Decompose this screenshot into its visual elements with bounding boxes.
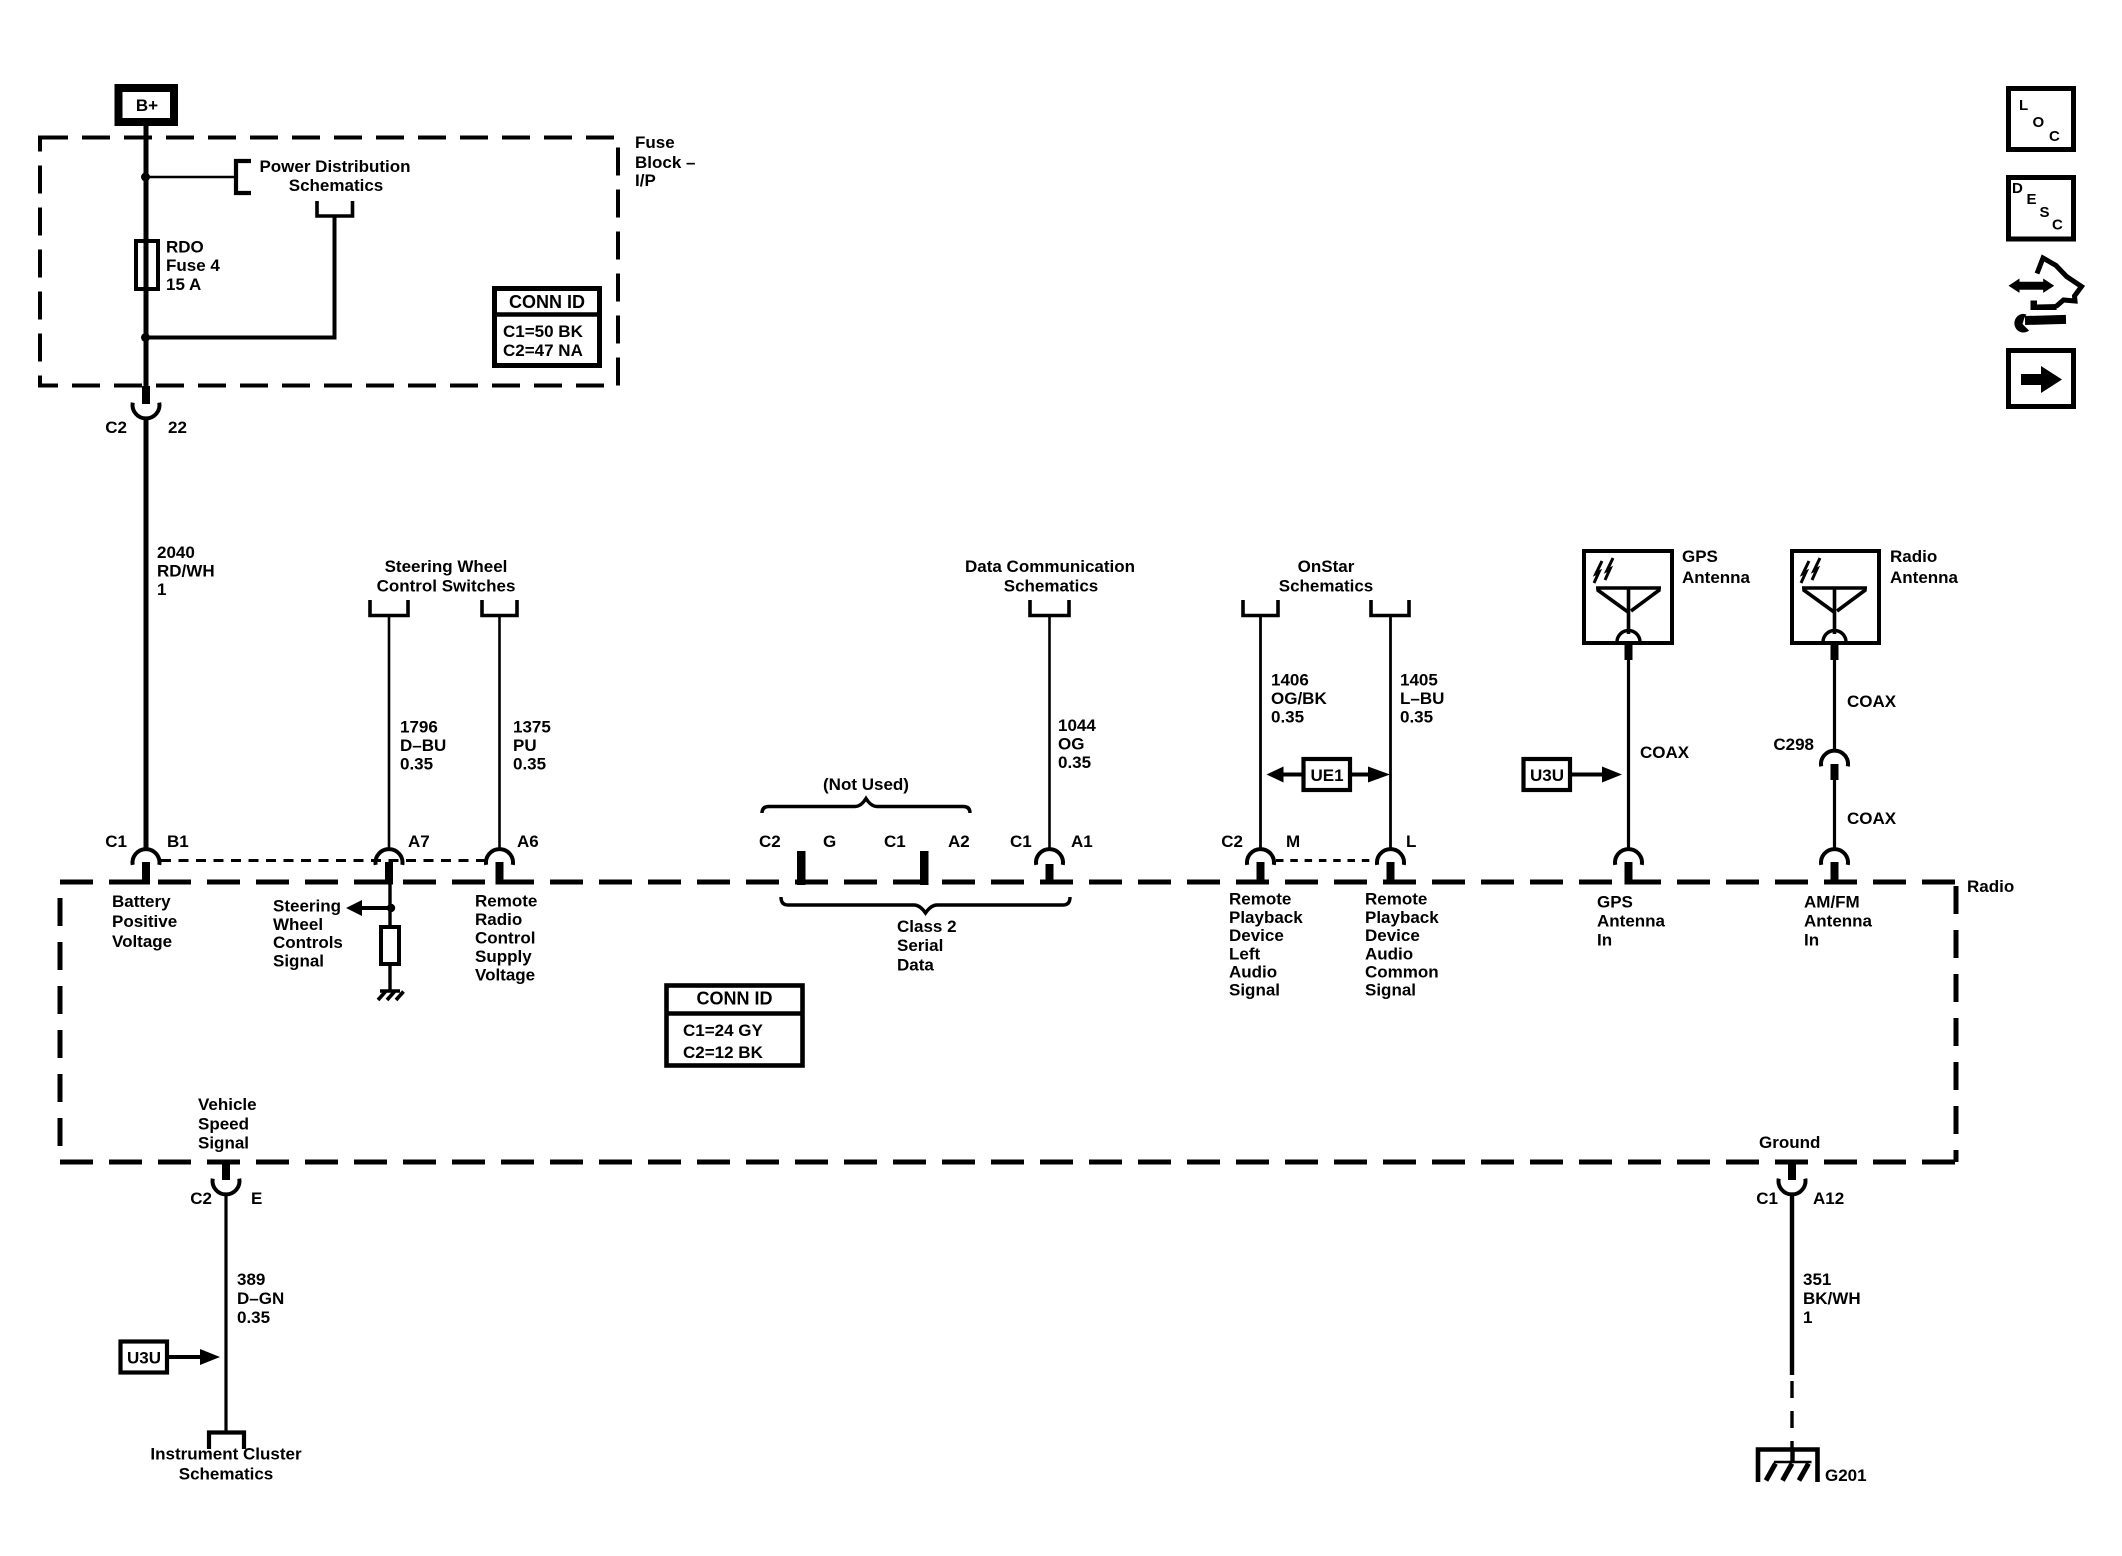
- wire B+ to fuse: [144, 126, 149, 386]
- svg-text:PU: PU: [513, 736, 537, 755]
- svg-text:1405: 1405: [1400, 671, 1438, 690]
- svg-text:GPS: GPS: [1597, 893, 1633, 912]
- svg-text:Block –: Block –: [635, 153, 695, 172]
- svg-text:C1: C1: [105, 832, 127, 851]
- svg-text:Class 2: Class 2: [897, 917, 957, 936]
- CONN ID table radio: [665, 986, 804, 1066]
- bracket to Power Distribution Schematics: [236, 157, 411, 195]
- svg-text:Schematics: Schematics: [1004, 577, 1099, 596]
- svg-text:Schematics: Schematics: [1279, 577, 1374, 596]
- svg-text:Audio: Audio: [1229, 963, 1277, 982]
- brace over not-used pins: [762, 799, 970, 814]
- wire A7 internal branch: [388, 883, 391, 927]
- svg-text:In: In: [1804, 931, 1819, 950]
- svg-text:C2: C2: [1221, 832, 1243, 851]
- svg-text:C1=24 GY: C1=24 GY: [683, 1021, 764, 1040]
- coax wire radio antenna upper: [1831, 643, 1897, 750]
- svg-text:1: 1: [1803, 1308, 1812, 1327]
- wire 1405 L-BU 0.35: [1391, 616, 1445, 850]
- svg-text:C2: C2: [759, 832, 781, 851]
- junction node at fuse feed: [141, 173, 150, 182]
- svg-text:Device: Device: [1229, 926, 1284, 945]
- radio dashed box: [60, 877, 2014, 1162]
- junction node below fuse: [141, 333, 150, 342]
- svg-text:A12: A12: [1813, 1189, 1844, 1208]
- svg-text:O: O: [2033, 114, 2045, 131]
- node Remote Playback Device Left Audio Signal: [1229, 890, 1303, 1000]
- svg-text:C2=47 NA: C2=47 NA: [503, 341, 583, 360]
- bracket from Power Distribution Schematics (return): [317, 201, 353, 216]
- icon LOC navigation box: [2009, 89, 2074, 150]
- radio antenna assembly: [1792, 547, 1959, 643]
- svg-text:E: E: [2027, 191, 2037, 208]
- svg-text:D–GN: D–GN: [237, 1289, 284, 1308]
- connector C1 pin A1 class 2 serial data: [1010, 832, 1093, 885]
- coax wire radio antenna lower: [1835, 780, 1897, 850]
- svg-text:Fuse 4: Fuse 4: [166, 256, 220, 275]
- svg-text:A1: A1: [1071, 832, 1093, 851]
- svg-text:RD/WH: RD/WH: [157, 562, 215, 581]
- node Steering Wheel Controls Signal: [273, 897, 343, 971]
- fuse RDO Fuse 4 15 A: [136, 238, 220, 295]
- svg-text:22: 22: [168, 418, 187, 437]
- svg-text:Voltage: Voltage: [112, 932, 172, 951]
- wire resistor to ground: [388, 964, 391, 991]
- svg-text:Remote: Remote: [1229, 890, 1291, 909]
- connector C2 pin M remote playback left audio: [1221, 832, 1300, 885]
- connector pin A7: [376, 832, 430, 885]
- connector C2 pin E vehicle speed output: [190, 1162, 262, 1208]
- dashed wire to G201: [1790, 1381, 1793, 1448]
- svg-text:UE1: UE1: [1310, 766, 1343, 785]
- svg-text:L–BU: L–BU: [1400, 689, 1444, 708]
- svg-text:Steering Wheel: Steering Wheel: [385, 557, 508, 576]
- svg-text:Serial: Serial: [897, 936, 943, 955]
- svg-text:C1: C1: [1010, 832, 1032, 851]
- connector pin L remote playback audio common: [1377, 832, 1416, 885]
- wire junction to power distribution bracket: [146, 176, 235, 179]
- svg-text:Common: Common: [1365, 963, 1439, 982]
- arrow steering wheel controls signal: [346, 900, 391, 916]
- svg-text:BK/WH: BK/WH: [1803, 1289, 1861, 1308]
- label Steering Wheel Control Switches: [377, 557, 516, 596]
- svg-text:G201: G201: [1825, 1466, 1867, 1485]
- wire 1796 D-BU 0.35: [389, 616, 446, 850]
- svg-text:Left: Left: [1229, 944, 1261, 963]
- label OnStar Schematics: [1279, 557, 1374, 596]
- svg-text:COAX: COAX: [1640, 743, 1690, 762]
- junction node steering signal: [387, 904, 395, 912]
- svg-text:1406: 1406: [1271, 671, 1309, 690]
- svg-text:I/P: I/P: [635, 171, 656, 190]
- svg-text:U3U: U3U: [1530, 766, 1564, 785]
- svg-text:Playback: Playback: [1365, 908, 1439, 927]
- bracket from steering wheel control switches right: [482, 600, 517, 616]
- node Remote Radio Control Supply Voltage: [475, 891, 537, 984]
- svg-text:Signal: Signal: [198, 1134, 249, 1153]
- svg-text:0.35: 0.35: [1400, 708, 1433, 727]
- svg-text:1796: 1796: [400, 718, 438, 737]
- fuse block dashed box Fuse Block - I/P: [40, 133, 695, 386]
- svg-text:Signal: Signal: [1229, 981, 1280, 1000]
- wire 1375 PU 0.35: [500, 616, 551, 850]
- svg-text:S: S: [2040, 204, 2050, 221]
- svg-text:Schematics: Schematics: [179, 1465, 274, 1484]
- svg-text:Steering: Steering: [273, 897, 341, 916]
- svg-text:In: In: [1597, 931, 1612, 950]
- ground internal radio: [378, 991, 404, 1000]
- option code U3U tag gps: [1524, 759, 1623, 790]
- svg-text:B1: B1: [167, 832, 189, 851]
- svg-text:RDO: RDO: [166, 238, 204, 257]
- svg-text:Radio: Radio: [475, 910, 522, 929]
- svg-text:Remote: Remote: [475, 891, 537, 910]
- dashed connector face line B1 to A6: [161, 859, 488, 862]
- svg-text:389: 389: [237, 1270, 265, 1289]
- svg-text:Control Switches: Control Switches: [377, 577, 516, 596]
- dashed connector face line M to L: [1276, 859, 1377, 862]
- svg-text:L: L: [2019, 97, 2028, 114]
- pin stub not used right: [920, 851, 929, 885]
- svg-text:2040: 2040: [157, 543, 195, 562]
- node Vehicle Speed Signal: [198, 1095, 257, 1153]
- svg-text:0.35: 0.35: [1271, 708, 1304, 727]
- svg-text:Data: Data: [897, 956, 934, 975]
- svg-text:0.35: 0.35: [400, 755, 433, 774]
- svg-text:C298: C298: [1773, 735, 1814, 754]
- svg-text:Antenna: Antenna: [1890, 568, 1959, 587]
- svg-text:GPS: GPS: [1682, 547, 1718, 566]
- node Remote Playback Device Audio Common Signal: [1365, 890, 1439, 1000]
- svg-text:0.35: 0.35: [237, 1308, 270, 1327]
- svg-text:G: G: [823, 832, 836, 851]
- pin stub not used left: [797, 851, 806, 885]
- option code UE1 tag with arrows: [1267, 759, 1391, 790]
- svg-text:Schematics: Schematics: [289, 176, 384, 195]
- connector pin A6: [486, 832, 539, 885]
- icon vehicle with double arrow and wrench: [2009, 258, 2082, 333]
- svg-text:Instrument Cluster: Instrument Cluster: [150, 1445, 302, 1464]
- svg-text:Radio: Radio: [1967, 877, 2014, 896]
- svg-text:Device: Device: [1365, 926, 1420, 945]
- svg-text:Antenna: Antenna: [1804, 912, 1873, 931]
- node AM/FM Antenna In: [1804, 893, 1873, 950]
- svg-text:M: M: [1286, 832, 1300, 851]
- bracket from onstar schematics right: [1371, 600, 1409, 616]
- svg-text:C2: C2: [190, 1189, 212, 1208]
- svg-text:A6: A6: [517, 832, 539, 851]
- svg-text:1: 1: [157, 580, 166, 599]
- icon forward arrow box: [2009, 351, 2074, 407]
- svg-text:OG/BK: OG/BK: [1271, 689, 1327, 708]
- label Class 2 Serial Data: [897, 917, 957, 975]
- svg-text:B+: B+: [136, 96, 158, 115]
- svg-text:A2: A2: [948, 832, 970, 851]
- svg-text:Supply: Supply: [475, 947, 532, 966]
- wire 351 BK/WH 1: [1792, 1193, 1861, 1375]
- inline connector C298: [1773, 735, 1848, 780]
- svg-text:AM/FM: AM/FM: [1804, 893, 1860, 912]
- wire 389 D-GN 0.35: [226, 1193, 284, 1431]
- svg-text:C1: C1: [884, 832, 906, 851]
- label Data Communication Schematics: [965, 557, 1135, 596]
- svg-text:C: C: [2052, 217, 2063, 234]
- connector C2 pin 22 fuse block output: [105, 386, 187, 437]
- svg-text:Remote: Remote: [1365, 890, 1427, 909]
- svg-text:C1: C1: [1756, 1189, 1778, 1208]
- svg-text:351: 351: [1803, 1270, 1831, 1289]
- svg-text:Playback: Playback: [1229, 908, 1303, 927]
- svg-text:A7: A7: [408, 832, 430, 851]
- wire power distribution return: [148, 217, 335, 338]
- svg-text:Radio: Radio: [1890, 547, 1937, 566]
- svg-text:Battery: Battery: [112, 892, 171, 911]
- coax wire GPS antenna: [1625, 643, 1690, 850]
- svg-text:(Not Used): (Not Used): [823, 775, 909, 794]
- bracket to instrument cluster schematics: [150, 1433, 302, 1484]
- svg-text:Signal: Signal: [273, 951, 324, 970]
- wire 1044 OG 0.35: [1050, 616, 1097, 850]
- CONN ID table fuse block: [493, 289, 601, 366]
- connector AM/FM antenna in: [1821, 849, 1848, 884]
- svg-text:CONN ID: CONN ID: [509, 292, 585, 312]
- svg-text:Ground: Ground: [1759, 1133, 1820, 1152]
- svg-text:Data Communication: Data Communication: [965, 557, 1135, 576]
- svg-text:OnStar: OnStar: [1298, 557, 1355, 576]
- svg-text:Audio: Audio: [1365, 944, 1413, 963]
- ground G201: [1758, 1448, 1867, 1485]
- icon DESC navigation box: [2009, 178, 2074, 240]
- battery positive terminal B+: [119, 88, 175, 122]
- svg-text:OG: OG: [1058, 735, 1084, 754]
- node GPS Antenna In: [1597, 893, 1666, 950]
- connector GPS antenna in: [1615, 849, 1642, 884]
- svg-text:COAX: COAX: [1847, 692, 1897, 711]
- svg-text:Antenna: Antenna: [1682, 568, 1751, 587]
- wire 2040 RD/WH 1: [146, 417, 215, 849]
- connector C1 pin B1 battery feed: [105, 832, 188, 885]
- svg-text:1044: 1044: [1058, 716, 1096, 735]
- svg-text:0.35: 0.35: [513, 755, 546, 774]
- svg-text:L: L: [1406, 832, 1416, 851]
- svg-text:0.35: 0.35: [1058, 753, 1091, 772]
- svg-text:COAX: COAX: [1847, 809, 1897, 828]
- svg-text:Wheel: Wheel: [273, 915, 323, 934]
- svg-text:Controls: Controls: [273, 933, 343, 952]
- svg-text:D: D: [2012, 180, 2023, 197]
- option code U3U tag vehicle speed: [121, 1342, 221, 1373]
- svg-text:CONN ID: CONN ID: [697, 989, 773, 1009]
- svg-text:Signal: Signal: [1365, 981, 1416, 1000]
- svg-text:1375: 1375: [513, 718, 551, 737]
- resistor internal radio: [381, 927, 399, 964]
- connector C1 pin A12 ground: [1756, 1162, 1844, 1208]
- svg-text:D–BU: D–BU: [400, 736, 446, 755]
- svg-text:Power Distribution: Power Distribution: [259, 157, 410, 176]
- svg-text:U3U: U3U: [127, 1349, 161, 1368]
- svg-text:C2=12 BK: C2=12 BK: [683, 1043, 764, 1062]
- svg-text:Voltage: Voltage: [475, 965, 535, 984]
- svg-text:C2: C2: [105, 418, 127, 437]
- svg-text:15 A: 15 A: [166, 275, 201, 294]
- svg-text:Antenna: Antenna: [1597, 912, 1666, 931]
- brace under class 2 serial data pins: [781, 897, 1070, 913]
- wire 1406 OG/BK 0.35: [1261, 616, 1328, 850]
- svg-text:Fuse: Fuse: [635, 133, 675, 152]
- svg-text:E: E: [251, 1189, 262, 1208]
- node Battery Positive Voltage: [112, 892, 177, 951]
- svg-text:Control: Control: [475, 928, 535, 947]
- svg-text:C: C: [2049, 128, 2060, 145]
- GPS antenna assembly: [1584, 547, 1751, 643]
- bracket from onstar schematics left: [1243, 600, 1278, 616]
- svg-text:Vehicle: Vehicle: [198, 1095, 257, 1114]
- svg-text:Speed: Speed: [198, 1115, 249, 1134]
- bracket from data communication schematics: [1030, 600, 1069, 616]
- bracket from steering wheel control switches left: [370, 600, 408, 616]
- svg-text:C1=50 BK: C1=50 BK: [503, 322, 584, 341]
- svg-text:Positive: Positive: [112, 912, 177, 931]
